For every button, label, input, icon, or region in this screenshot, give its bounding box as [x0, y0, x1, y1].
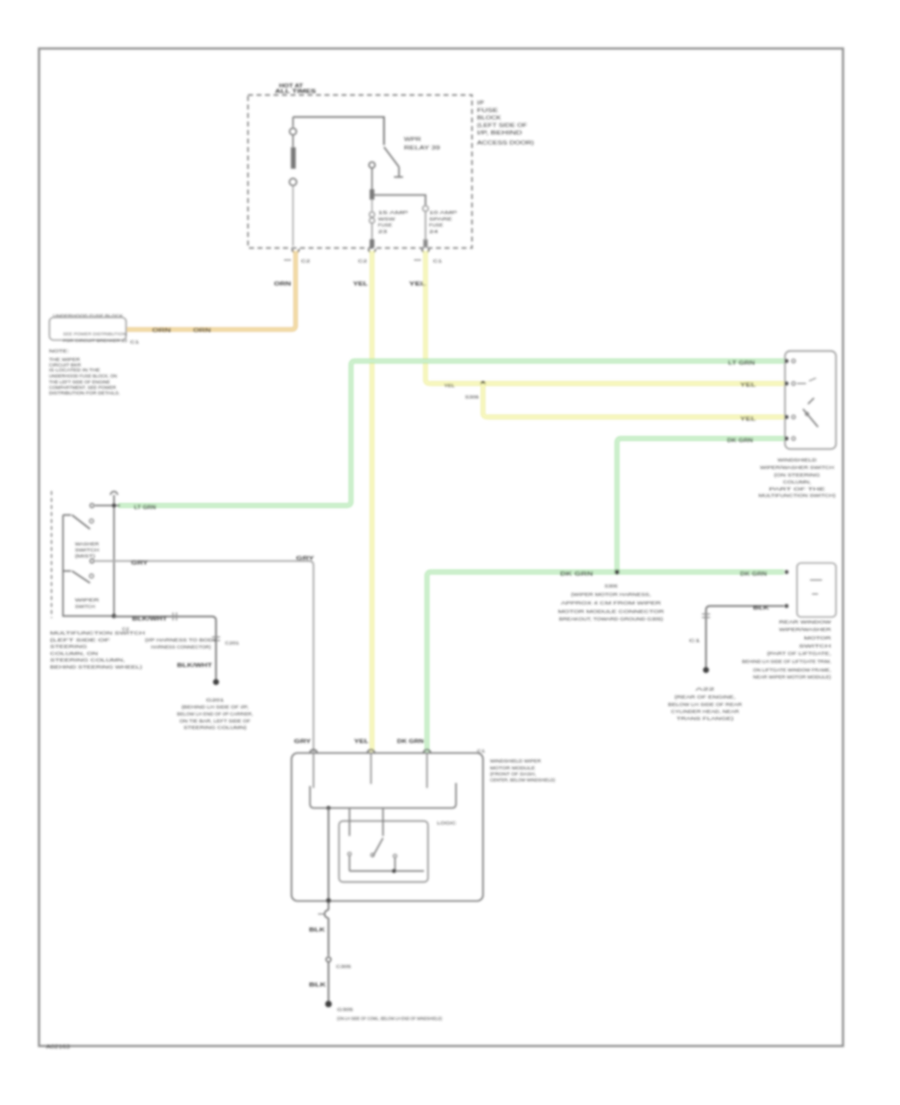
- svg-text:GRY: GRY: [294, 739, 312, 745]
- fuse WSW FUSE 23: [369, 190, 374, 247]
- svg-text:FUSE: FUSE: [378, 223, 392, 228]
- label multifunction switch location: [50, 631, 145, 670]
- wire (branch to fuse 24): [372, 195, 426, 205]
- connector C2 at fuse block exit (yellow wire 1): [369, 249, 376, 253]
- svg-text:APPROX 4 CM FROM WIPER: APPROX 4 CM FROM WIPER: [561, 601, 662, 606]
- svg-text:WINDSHIELD WIPER: WINDSHIELD WIPER: [490, 759, 542, 764]
- wire BLK ground from module: [328, 808, 330, 910]
- connector ticks on rear BLK wire: [702, 614, 710, 618]
- svg-text:WIPER: WIPER: [75, 598, 100, 603]
- svg-text:FUSE: FUSE: [477, 108, 499, 114]
- label wiper switch: [75, 598, 100, 610]
- svg-text:ORN: ORN: [193, 328, 212, 334]
- svg-text:I/P: I/P: [477, 101, 485, 107]
- svg-text:BEHIND STEERING WHEEL): BEHIND STEERING WHEEL): [50, 665, 143, 670]
- svg-text:LT GRN: LT GRN: [728, 361, 756, 367]
- svg-text:MULTIFUNCTION SWITCH): MULTIFUNCTION SWITCH): [759, 493, 837, 498]
- svg-text:IS LOCATED IN THE: IS LOCATED IN THE: [49, 368, 100, 373]
- connector ring on ground wire: [326, 957, 331, 962]
- svg-text:YEL: YEL: [444, 383, 455, 388]
- label WPR RELAY 39: [404, 137, 440, 152]
- svg-text:YEL: YEL: [740, 383, 756, 389]
- svg-text:C1: C1: [130, 340, 140, 345]
- junction dot (common / green pin): [112, 503, 116, 507]
- svg-text:GRY: GRY: [131, 561, 149, 567]
- label washer switch: [75, 542, 100, 559]
- svg-text:CYLINDER HEAD, NEAR: CYLINDER HEAD, NEAR: [671, 709, 740, 714]
- svg-text:THE LEFT SIDE OF ENGINE: THE LEFT SIDE OF ENGINE: [49, 380, 110, 385]
- wire BLK/WHT from switch bottom to ground G201: [114, 617, 216, 681]
- svg-text:COMPARTMENT. SEE POWER: COMPARTMENT. SEE POWER: [49, 385, 117, 390]
- svg-text:(PART OF LIFTGATE,: (PART OF LIFTGATE,: [767, 651, 831, 656]
- multifunction switch dashed boundary: [51, 491, 53, 618]
- svg-text:STEERING COLUMN,: STEERING COLUMN,: [50, 658, 125, 663]
- svg-text:10 AMP: 10 AMP: [429, 210, 457, 215]
- svg-text:SPARE: SPARE: [429, 217, 452, 222]
- wire GRY from wiper switch to module: [95, 561, 314, 752]
- park switch bottom wire: [350, 870, 425, 872]
- svg-text:BLK/WHT: BLK/WHT: [132, 617, 167, 623]
- wire LT GRN from multifunction switch up and right to wiper/washer switch: [118, 361, 784, 506]
- svg-text:SEE POWER DISTRIBUTION: SEE POWER DISTRIBUTION: [63, 332, 126, 337]
- svg-text:S306: S306: [465, 395, 480, 400]
- svg-text:BREAKOUT, TOWARD GROUND G305): BREAKOUT, TOWARD GROUND G305): [559, 617, 664, 622]
- svg-text:YEL: YEL: [409, 282, 426, 288]
- svg-text:WIPER/WASHER SWITCH: WIPER/WASHER SWITCH: [760, 465, 834, 470]
- connector C2 at fuse block exit (orange wire): [292, 249, 299, 253]
- pin terminal (green wire end): [785, 570, 789, 574]
- svg-text:G201: G201: [206, 698, 225, 703]
- svg-text:DK GRN: DK GRN: [560, 572, 594, 578]
- svg-text:PART OF THE: PART OF THE: [769, 487, 825, 492]
- pin marks inside rear box: [810, 580, 822, 594]
- svg-text:(REAR OF ENGINE,: (REAR OF ENGINE,: [675, 695, 736, 700]
- svg-text:BEHIND LH SIDE OF LIFTGATE TRI: BEHIND LH SIDE OF LIFTGATE TRIM,: [742, 659, 831, 664]
- svg-text:WINDSHIELD: WINDSHIELD: [778, 458, 818, 463]
- wire BLK from rear box to ground A22: [706, 606, 784, 668]
- svg-text:GRY: GRY: [296, 556, 315, 562]
- svg-text:UNDERHOOD FUSE BLOCK, ON: UNDERHOOD FUSE BLOCK, ON: [49, 374, 117, 379]
- label wiper motor module location: [490, 759, 555, 783]
- svg-text:BELOW LH END OF I/P CARRIER,: BELOW LH END OF I/P CARRIER,: [177, 712, 253, 717]
- svg-text:THE WIPER: THE WIPER: [49, 357, 81, 362]
- wire YEL from fuse 24 down and right: [426, 251, 785, 384]
- svg-text:A02163: A02163: [46, 1045, 70, 1051]
- wire YEL lower branch to switch: [483, 384, 784, 418]
- svg-text:(LEFT SIDE OF: (LEFT SIDE OF: [477, 123, 527, 129]
- wiper switch contact set (lower blade): [63, 571, 94, 583]
- switch blade (wiper/washer switch): [803, 398, 818, 427]
- svg-text:MOTOR: MOTOR: [804, 636, 832, 641]
- label HOT AT ALL TIMES: [275, 84, 317, 96]
- svg-text:(I/P HARNESS TO BODY: (I/P HARNESS TO BODY: [145, 638, 217, 643]
- junction dot (green splice): [615, 570, 620, 575]
- park switch blade: [373, 838, 384, 857]
- svg-text:ORN: ORN: [152, 328, 172, 334]
- windshield wiper motor module box: [292, 753, 484, 901]
- svg-text:FUSE: FUSE: [429, 223, 443, 228]
- svg-text:A22: A22: [696, 687, 716, 692]
- connector C1 at fuse block exit (yellow wire 2): [422, 249, 429, 253]
- ground stud G201 (dot): [213, 679, 219, 685]
- junction dot at module case: [326, 898, 331, 903]
- module internal bracket: [310, 783, 456, 808]
- svg-text:WSW: WSW: [378, 217, 396, 222]
- module internal pin stubs: [314, 753, 428, 788]
- svg-text:DISTRIBUTION FOR DETAILS.: DISTRIBUTION FOR DETAILS.: [49, 391, 120, 396]
- svg-text:WPR: WPR: [404, 137, 422, 143]
- svg-text:BELOW LH SIDE OF REAR: BELOW LH SIDE OF REAR: [668, 702, 743, 707]
- svg-text:(ON STEERING: (ON STEERING: [774, 473, 821, 478]
- svg-text:BLK: BLK: [753, 606, 770, 612]
- svg-text:NEAR WIPER MOTOR MODULE): NEAR WIPER MOTOR MODULE): [753, 675, 832, 680]
- pin terminal (black wire end): [785, 604, 789, 608]
- svg-text:(LEFT SIDE OF: (LEFT SIDE OF: [50, 638, 110, 643]
- svg-text:C1: C1: [689, 638, 701, 643]
- pin arc (yellow wire): [368, 750, 375, 753]
- park switch lower contacts: [350, 856, 396, 871]
- svg-text:YEL: YEL: [353, 282, 368, 288]
- svg-text:STEERING COLUMN): STEERING COLUMN): [184, 725, 248, 730]
- label wiper/washer switch location: [759, 458, 837, 499]
- wire ORN from fuse block to junction block: [127, 251, 296, 330]
- svg-text:BLK: BLK: [309, 928, 326, 934]
- park switch stubs from bracket: [350, 808, 384, 836]
- svg-text:LT GRN: LT GRN: [134, 505, 156, 511]
- svg-text:23: 23: [378, 229, 388, 234]
- label fuse 23: [378, 210, 408, 234]
- svg-text:YEL: YEL: [740, 417, 756, 423]
- junction dot (park switch): [392, 869, 396, 873]
- ground stud A22 (dot): [703, 667, 709, 673]
- svg-text:MOTOR MODULE: MOTOR MODULE: [490, 766, 535, 771]
- fuse SPARE FUSE 24: [423, 206, 429, 247]
- svg-text:BLOCK: BLOCK: [477, 116, 502, 122]
- svg-text:UNDERHOOD FUSE BLOCK: UNDERHOOD FUSE BLOCK: [53, 314, 123, 319]
- svg-text:WIPER/WASHER: WIPER/WASHER: [779, 627, 832, 632]
- svg-text:ACCESS DOOR): ACCESS DOOR): [477, 141, 534, 147]
- svg-text:FOR CIRCUIT BREAKER 23: FOR CIRCUIT BREAKER 23: [63, 338, 128, 343]
- rear wiper relay box: [797, 563, 836, 617]
- junction block box: [50, 318, 127, 341]
- svg-text:BLK: BLK: [309, 983, 327, 989]
- svg-text:HARNESS CONNECTOR): HARNESS CONNECTOR): [151, 645, 212, 650]
- svg-text:C2: C2: [358, 259, 368, 264]
- svg-text:COLUMN, ON: COLUMN, ON: [50, 651, 98, 656]
- wire YEL vertical from fuse 23 to wiper module: [370, 251, 374, 752]
- svg-text:SWITCH: SWITCH: [75, 548, 99, 553]
- svg-text:(ON LH SIDE OF COWL, BELOW LH: (ON LH SIDE OF COWL, BELOW LH END OF WIN…: [337, 1016, 442, 1021]
- svg-text:(MIST): (MIST): [75, 554, 96, 559]
- svg-text:TRANS FLANGE): TRANS FLANGE): [677, 716, 735, 721]
- wire DK GRN horizontal to rear box and down to module: [427, 572, 784, 752]
- connector ticks on vertical BLK/WHT: [212, 637, 220, 641]
- svg-text:ORN: ORN: [274, 282, 292, 288]
- label fuse 24: [429, 210, 457, 234]
- svg-text:15 AMP: 15 AMP: [378, 210, 408, 215]
- switch output lead (to green wire): [95, 505, 120, 507]
- switch common wire (vertical): [113, 495, 115, 616]
- splice junction dot on yellow wire: [481, 381, 486, 386]
- ground stud G305 (dot): [325, 1001, 332, 1008]
- pin arc (green wire): [424, 750, 431, 753]
- svg-text:ON LIFTGATE WINDOW FRAME,: ON LIFTGATE WINDOW FRAME,: [753, 668, 831, 673]
- svg-text:WASHER: WASHER: [75, 542, 100, 547]
- logic block box: [339, 821, 428, 882]
- circuit breaker (left leg x=293): [289, 117, 296, 246]
- label I/P fuse block location: [477, 101, 534, 147]
- svg-text:S306: S306: [605, 584, 619, 589]
- switch pins inside: [792, 359, 816, 440]
- wire (bus inside fuse block): [293, 117, 384, 145]
- relay WPR RLY (switch blade): [369, 147, 403, 190]
- svg-text:MULTIFUNCTION SWITCH: MULTIFUNCTION SWITCH: [50, 631, 145, 636]
- svg-text:NOTE:: NOTE:: [49, 349, 69, 354]
- label rear component location block: [742, 620, 832, 680]
- svg-text:LOGIC: LOGIC: [437, 821, 457, 826]
- label G201 block: [177, 698, 253, 731]
- splice S306 label block: [558, 584, 665, 622]
- svg-text:REAR WINDOW: REAR WINDOW: [779, 620, 832, 625]
- svg-text:I/P, BEHIND: I/P, BEHIND: [477, 131, 523, 137]
- svg-text:(WIPER MOTOR HARNESS,: (WIPER MOTOR HARNESS,: [571, 592, 651, 597]
- in-line connector tick on BLK/WHT wire: [173, 613, 177, 621]
- pin arc at top of common wire: [111, 492, 118, 496]
- svg-text:CENTER, BELOW WINDSHIELD): CENTER, BELOW WINDSHIELD): [490, 778, 555, 783]
- svg-text:DK GRN: DK GRN: [740, 572, 768, 578]
- svg-text:ON TIE BAR, LEFT SIDE OF: ON TIE BAR, LEFT SIDE OF: [180, 719, 251, 724]
- junction dot (common bottom): [112, 614, 117, 619]
- label A22 block: [668, 687, 743, 722]
- note text block: [49, 349, 120, 396]
- svg-text:DK GRN: DK GRN: [397, 739, 425, 745]
- in-line connector on ground wire: [325, 910, 329, 918]
- pin arc (gray wire): [310, 750, 317, 753]
- svg-text:STEERING: STEERING: [50, 644, 88, 649]
- svg-text:YEL: YEL: [354, 739, 369, 745]
- svg-text:(FRONT OF DASH,: (FRONT OF DASH,: [490, 772, 536, 777]
- svg-text:G305: G305: [337, 1007, 354, 1012]
- washer switch contact set (upper blade): [63, 515, 114, 616]
- windshield wiper/washer switch box: [785, 351, 836, 449]
- svg-text:MOTOR MODULE CONNECTOR: MOTOR MODULE CONNECTOR: [558, 609, 665, 614]
- svg-text:SWITCH: SWITCH: [799, 644, 831, 649]
- svg-text:C2: C2: [301, 259, 311, 264]
- svg-text:SWITCH: SWITCH: [75, 604, 95, 609]
- wire DK GRN from wiper/washer switch down to splice: [617, 439, 784, 573]
- svg-text:(BEHIND LH SIDE OF I/P,: (BEHIND LH SIDE OF I/P,: [182, 705, 249, 710]
- pin terminals (wire ends): [785, 359, 789, 363]
- junction dot (ground takeoff on bracket): [326, 806, 330, 810]
- I/P fuse block (dashed outline): [248, 95, 472, 248]
- svg-text:ALL TIMES: ALL TIMES: [275, 89, 317, 95]
- svg-text:DK GRN: DK GRN: [727, 438, 753, 444]
- svg-text:COLUMN,: COLUMN,: [783, 480, 811, 485]
- svg-text:24: 24: [429, 229, 439, 234]
- svg-text:C1: C1: [433, 259, 443, 264]
- svg-text:RELAY 39: RELAY 39: [404, 146, 440, 152]
- label I/P harness connector block: [145, 638, 217, 650]
- svg-text:C305: C305: [336, 964, 352, 969]
- svg-text:C1: C1: [477, 749, 486, 754]
- svg-text:BLK/WHT: BLK/WHT: [177, 663, 212, 669]
- svg-text:C201: C201: [225, 641, 240, 646]
